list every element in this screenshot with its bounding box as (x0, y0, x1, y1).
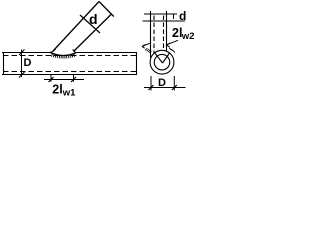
branch outer wall right (vertical) (166, 11, 168, 52)
svg-text:D: D (158, 77, 166, 89)
wire: 2lw1 dimension line (44, 79, 84, 81)
dimension d (right view top) (143, 14, 186, 21)
wire: main pipe top inner dashed line (3, 55, 136, 57)
branch inner wall right dashed (163, 16, 165, 51)
wire: pipe right end line (136, 52, 138, 75)
wire: D dimension line bottom (144, 87, 186, 89)
branch left wall (53, 2, 99, 52)
weld bead (left view) white mask (50, 48, 76, 56)
tick right (172, 85, 177, 90)
wire: D dimension line vertical (21, 50, 23, 78)
weld comb hatch left view (51, 54, 74, 59)
svg-text:d: d (179, 9, 186, 23)
extension line right (73, 75, 75, 82)
tick right (71, 77, 76, 82)
wire: d dimension line (80, 15, 100, 33)
dimension d (left view, across branch) (80, 15, 100, 33)
V line right inside circle (163, 53, 170, 63)
svg-text:d: d (89, 11, 98, 27)
leader arrow left (2lw2) (142, 43, 150, 48)
weld hatch right view left shoulder (145, 48, 151, 53)
svg-text:w2: w2 (181, 31, 195, 42)
tick at bottom (19, 72, 25, 78)
extension line left (50, 75, 52, 82)
tick at top (19, 50, 25, 56)
extension line left (150, 76, 152, 91)
svg-text:w1: w1 (62, 88, 76, 98)
outer circle (pipe cross-section) (150, 50, 174, 74)
wire: d dimension line top (144, 13, 177, 15)
inner circle (154, 54, 170, 69)
extension line right (173, 76, 175, 91)
wire: main pipe bottom inner dashed line (3, 71, 136, 73)
branch right wall (74, 14, 112, 51)
branch end cut line (99, 2, 114, 17)
dimension 2lw1 below pipe (44, 75, 84, 83)
V line left inside circle (155, 53, 163, 63)
leader arrow right (2lw2) (167, 40, 179, 47)
tick right short vertical (173, 15, 175, 20)
wire: main pipe top solid line left segment (2, 52, 50, 54)
weld left flare (50, 49, 56, 53)
dimension D (left view) (19, 50, 25, 78)
wire: lower reference line under d (143, 20, 186, 22)
wire: main pipe top solid line right segment (76, 52, 137, 54)
weld right flare (73, 49, 76, 52)
svg-text:D: D (24, 57, 32, 69)
tick left (149, 85, 154, 90)
weld bead arc left view (50, 52, 76, 55)
wire: main pipe bottom solid line (2, 74, 137, 76)
branch outer wall left (vertical) (150, 11, 152, 58)
svg-text:2l: 2l (52, 82, 62, 96)
tick left (49, 77, 54, 82)
wire: pipe left end line (3, 52, 5, 75)
weld hatch right view right shoulder (169, 48, 175, 53)
branch inner wall left dashed (153, 16, 155, 54)
dimension D (right view bottom) (144, 76, 186, 91)
